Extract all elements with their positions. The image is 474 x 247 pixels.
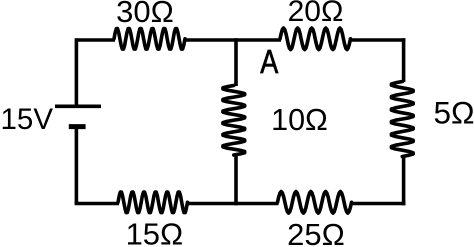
wire top horizontal right segment (20-ohm to top-right corner) (350, 38, 406, 42)
wire top horizontal middle segment (30-ohm to 20-ohm through node A junction) (184, 38, 281, 42)
svg-text:A: A (260, 44, 279, 80)
wire middle vertical lower (10-ohm down to bottom junction) (234, 155, 238, 206)
svg-text:30Ω: 30Ω (116, 0, 174, 29)
wire right vertical lower (5-ohm down to bottom-right corner) (402, 156, 406, 205)
battery V1 long positive plate (55, 105, 101, 109)
svg-text:25Ω: 25Ω (287, 217, 345, 247)
svg-text:15Ω: 15Ω (126, 217, 184, 247)
svg-text:5Ω: 5Ω (433, 95, 474, 131)
wire top horizontal left segment (node to 30-ohm) (76, 38, 115, 42)
wire left vertical lower (battery - plate down to bottom-left corner) (75, 127, 79, 204)
resistor R1 30-ohm squiggle (114, 29, 185, 50)
svg-text:20Ω: 20Ω (288, 0, 344, 28)
wire right vertical upper (top-right corner down to 5-ohm) (402, 38, 406, 82)
resistor R5 10-ohm squiggle (223, 86, 245, 156)
wire bottom horizontal right segment (25-ohm to bottom-right corner) (351, 202, 406, 206)
svg-text:15V: 15V (1, 103, 54, 136)
resistor R3 15-ohm squiggle (118, 192, 188, 213)
wire bottom horizontal left segment (bottom-left corner to 15-ohm) (75, 202, 119, 206)
battery V1 short negative plate (69, 124, 86, 129)
wire middle vertical upper (node A junction down to 10-ohm) (234, 38, 238, 86)
svg-text:10Ω: 10Ω (271, 103, 328, 137)
wire bottom horizontal middle segment (15-ohm to 25-ohm through bottom junction) (187, 202, 279, 206)
resistor R2 20-ohm squiggle (280, 28, 351, 50)
resistor R6 5-ohm squiggle (391, 82, 413, 157)
resistor R4 25-ohm squiggle (278, 192, 352, 214)
wire left vertical upper (top-left corner down to battery + plate) (75, 38, 79, 105)
